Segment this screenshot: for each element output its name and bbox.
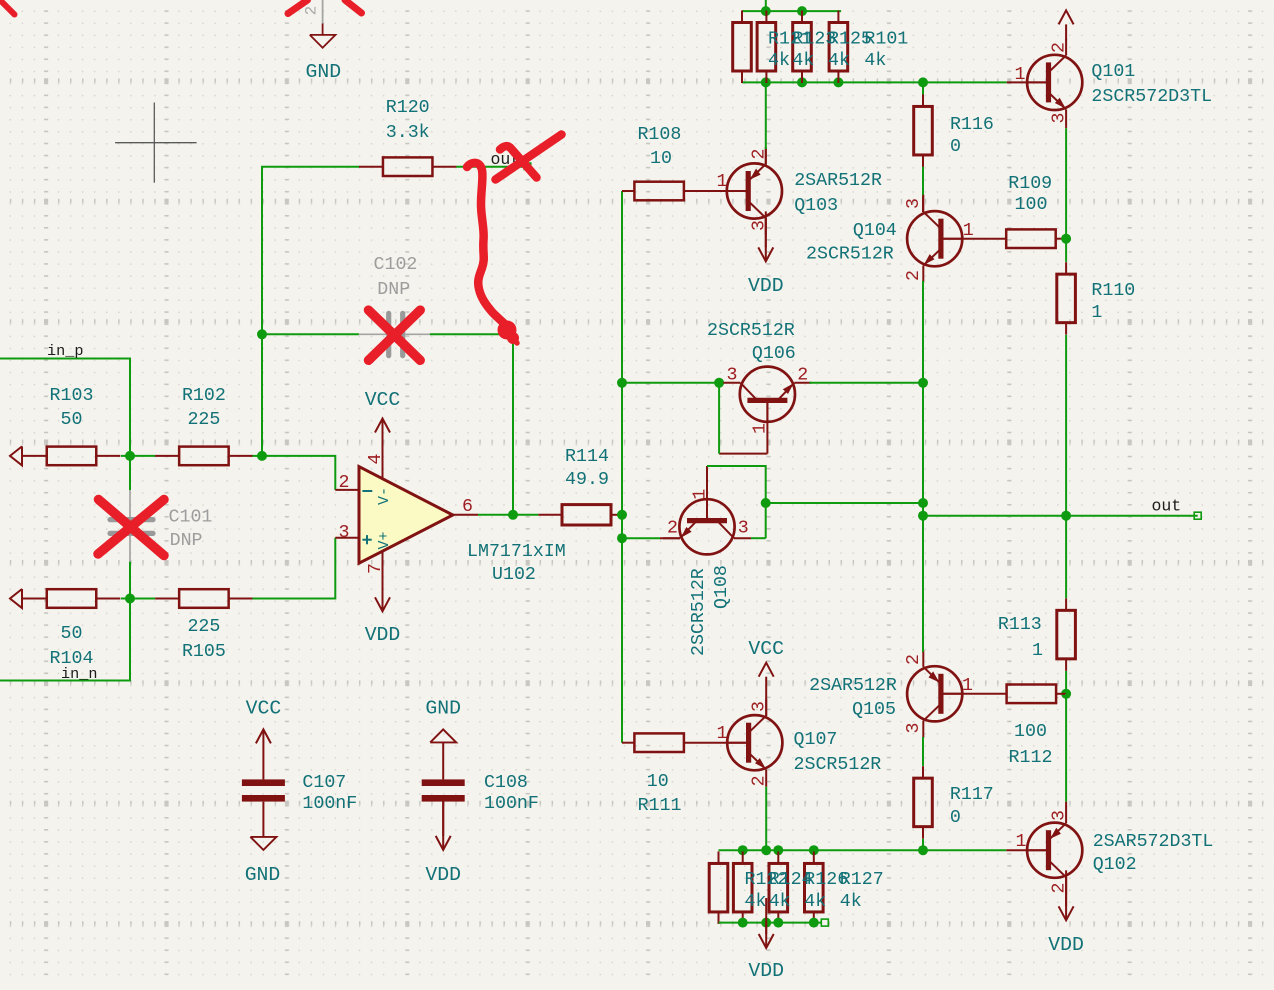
transistor Q107 2SCR512R NPN [727, 699, 782, 787]
svg-text:3: 3 [738, 519, 749, 539]
junction mid rail at out row [918, 511, 928, 521]
resistor R104 [47, 589, 97, 608]
svg-text:1: 1 [1015, 65, 1026, 85]
wire to op-amp pin 2 [262, 456, 335, 490]
resistor R109 [1006, 229, 1055, 248]
wire Q101 base [1007, 81, 1049, 83]
junction feedback at C102 row [257, 329, 267, 339]
svg-text:R108: R108 [637, 125, 681, 145]
svg-text:GND: GND [305, 61, 341, 83]
svg-text:U102: U102 [492, 565, 536, 585]
transistor Q103 2SAR512R PNP [727, 147, 782, 235]
svg-text:4k: 4k [769, 892, 791, 912]
svg-text:3: 3 [1050, 810, 1070, 821]
svg-text:100: 100 [1015, 195, 1048, 215]
wire out row to R113 [1065, 516, 1067, 599]
resistor R114 [562, 505, 611, 525]
resistor R122 [709, 863, 728, 912]
svg-text:Q103: Q103 [794, 196, 838, 216]
svg-text:C108: C108 [484, 773, 528, 793]
svg-text:2SCR512R: 2SCR512R [707, 321, 795, 341]
resistor R120 [383, 157, 433, 176]
red annotation partial X top [288, 0, 308, 14]
wire R116 to Q104 collector [922, 167, 924, 197]
junction railR at out row [1061, 511, 1071, 521]
wire R110 to out node [1065, 335, 1067, 516]
junction railL at Q108 row [617, 533, 627, 543]
resistor R103 [47, 447, 97, 466]
red annotation blob end of squiggle [498, 321, 517, 340]
svg-text:V-: V- [376, 487, 393, 505]
svg-text:VDD: VDD [748, 960, 784, 982]
junction bottom rail r4 [833, 77, 843, 87]
svg-text:R120: R120 [386, 98, 430, 118]
wire Q105 base to R112 [941, 693, 1007, 695]
wire C107 bottom [262, 802, 264, 837]
wire Q107 emitter to bottom rail [765, 787, 767, 851]
junction upper rail r3b [773, 845, 783, 855]
wire C102 row left [262, 333, 359, 335]
junction lower rail VDD tap [761, 918, 771, 928]
port arrow in_n [10, 589, 22, 608]
transistor Q102 2SAR572D3TL PNP [1027, 806, 1082, 894]
svg-text:4k: 4k [804, 892, 826, 912]
junction upper rail r4b [809, 845, 819, 855]
op-amp minus input marker [362, 490, 372, 492]
wire output to node [478, 514, 513, 516]
resistor R113 [1057, 610, 1076, 659]
svg-text:2: 2 [303, 6, 321, 16]
VDD power arrow below bank [765, 923, 767, 934]
svg-text:1: 1 [1032, 641, 1043, 661]
wire out row to railR [923, 515, 1066, 517]
wire bottom bank lower rail [719, 922, 822, 924]
VCC power arrow above op-amp [375, 419, 390, 433]
svg-text:R110: R110 [1091, 281, 1135, 301]
wire R102 to feedback node [252, 455, 262, 457]
svg-text:R114: R114 [565, 447, 609, 467]
ground symbol GND top [310, 35, 336, 48]
svg-text:100nF: 100nF [302, 794, 357, 814]
svg-text:R102: R102 [182, 386, 226, 406]
wire Q108 base loop [706, 466, 708, 521]
svg-text:50: 50 [61, 410, 83, 430]
svg-text:100: 100 [1014, 722, 1047, 742]
svg-text:1: 1 [1016, 832, 1027, 852]
junction lower rail r2b [738, 918, 748, 928]
transistor Q108 2SCR512R NPN rotated base up [663, 499, 751, 554]
op-amp plus input marker [362, 539, 371, 541]
junction railL at Q106 row [617, 378, 627, 388]
svg-text:10: 10 [647, 772, 669, 792]
wire bottom bank upper rail [719, 849, 1007, 851]
svg-text:R112: R112 [1009, 748, 1053, 768]
junction Q106 base loop [714, 378, 724, 388]
svg-text:225: 225 [187, 410, 220, 430]
svg-text:R127: R127 [840, 870, 884, 890]
svg-text:VDD: VDD [1048, 934, 1084, 956]
svg-text:VDD: VDD [425, 864, 461, 886]
svg-text:VCC: VCC [365, 389, 401, 411]
port arrow in_p [10, 446, 22, 465]
svg-text:10: 10 [650, 149, 672, 169]
svg-text:Q108: Q108 [712, 565, 732, 609]
wire R116 top [922, 82, 924, 94]
svg-text:VDD: VDD [748, 275, 784, 297]
svg-text:Q101: Q101 [1091, 62, 1135, 82]
resistor R123 [757, 23, 776, 72]
wire in_n net [0, 599, 130, 681]
junction railR at R112 [1061, 689, 1071, 699]
svg-text:2SCR512R: 2SCR512R [806, 245, 894, 265]
wire R104 to node B [121, 598, 130, 600]
junction bottom rail r2 [761, 77, 771, 87]
VCC power arrow above C107 [262, 729, 264, 779]
svg-text:1: 1 [1091, 303, 1102, 323]
svg-text:0: 0 [950, 137, 961, 157]
wire Q103 emitter to bank [765, 82, 767, 149]
svg-text:C101: C101 [169, 508, 213, 528]
svg-text:VCC: VCC [246, 698, 282, 720]
svg-text:2SAR512R: 2SAR512R [809, 676, 897, 696]
op-amp pin4 VCC line [382, 419, 384, 479]
wire R120 to dangling out label [456, 166, 524, 168]
wire R105 to op-amp pin 3 [252, 538, 335, 599]
junction bottom rail at R117 [918, 845, 928, 855]
svg-text:4k: 4k [768, 51, 790, 71]
svg-text:2SCR572D3TL: 2SCR572D3TL [1091, 87, 1212, 107]
svg-text:4k: 4k [828, 51, 850, 71]
resistor R110 [1057, 274, 1076, 323]
wire out row to label [1066, 515, 1198, 517]
wire node B to R105 [130, 598, 155, 600]
svg-text:out: out [1152, 497, 1182, 516]
wire Q106 base loop [766, 400, 768, 453]
resistor R116 [914, 106, 933, 155]
wire top bank lower rail [742, 81, 1007, 83]
wire in_p net [0, 359, 130, 456]
svg-text:3: 3 [904, 723, 924, 734]
svg-text:100nF: 100nF [484, 794, 539, 814]
svg-text:C102: C102 [374, 255, 418, 275]
transistor Q104 2SCR512R NPN [907, 195, 962, 283]
svg-text:R109: R109 [1008, 174, 1052, 194]
svg-text:4k: 4k [792, 51, 814, 71]
resistor R112 [1007, 685, 1057, 704]
wire R117 to bottom rail [922, 839, 924, 850]
svg-text:Q105: Q105 [852, 700, 896, 720]
svg-text:Q107: Q107 [794, 730, 838, 750]
svg-text:R103: R103 [50, 386, 94, 406]
wire railL to R108 [622, 190, 634, 192]
svg-text:Q106: Q106 [752, 344, 796, 364]
capacitor C108 [422, 779, 465, 786]
svg-text:2: 2 [339, 473, 350, 493]
output node junction [508, 510, 518, 520]
junction top rail r3 [797, 6, 807, 16]
wire mid rail vertical [922, 281, 924, 652]
red annotation stroke top-left corner [0, 0, 15, 15]
svg-text:2: 2 [1050, 42, 1070, 53]
junction mid rail at Q106 [918, 378, 928, 388]
resistor R117 [914, 778, 933, 827]
svg-text:R105: R105 [182, 642, 226, 662]
resistor R105 [179, 589, 229, 608]
svg-text:2SCR512R: 2SCR512R [794, 755, 882, 775]
svg-text:2: 2 [667, 519, 678, 539]
wire left driver rail vertical [621, 191, 623, 743]
svg-text:50: 50 [61, 624, 83, 644]
junction bottom rail r3 [797, 77, 807, 87]
wire feedback vertical [262, 167, 359, 456]
wire R103 to node A [121, 455, 130, 457]
crosshair cursor marker [153, 103, 155, 183]
svg-text:2SAR512R: 2SAR512R [794, 171, 882, 191]
op-amp output pin 6 stub [453, 514, 478, 516]
svg-text:DNP: DNP [170, 531, 203, 551]
ground symbol above C108 [430, 729, 456, 742]
svg-text:R117: R117 [950, 785, 994, 805]
wire bottom rail to Q102 base [1006, 849, 1048, 851]
svg-text:2: 2 [904, 654, 924, 665]
svg-text:DNP: DNP [377, 280, 410, 300]
capacitor C102 DNP greyed [359, 333, 386, 335]
svg-text:LM7171xIM: LM7171xIM [467, 542, 566, 562]
wire Q104 base to R109 [941, 238, 1006, 240]
VDD power arrow below Q102 [1065, 877, 1067, 906]
VCC power arrow above Q101 [1065, 24, 1067, 40]
junction Q108 loop at out branch [761, 498, 771, 508]
red X annotation over C101 [98, 500, 164, 555]
svg-text:1: 1 [717, 172, 728, 192]
junction bottom rail R116 tap [918, 77, 928, 87]
wire R109 to railR [1056, 238, 1066, 240]
wire Q107 collector [765, 701, 767, 716]
svg-text:3: 3 [339, 523, 350, 543]
wire end square at out [1194, 512, 1201, 519]
VDD power arrow below C108 [442, 802, 444, 836]
svg-text:3.3k: 3.3k [386, 123, 430, 143]
svg-text:2SCR512R: 2SCR512R [689, 568, 709, 656]
svg-text:3: 3 [904, 198, 924, 209]
wire output node to R114 [513, 514, 538, 516]
svg-text:3: 3 [727, 366, 738, 386]
wire end square at out label [524, 163, 531, 170]
wire end square bottom rail [821, 919, 828, 926]
svg-text:GND: GND [425, 698, 461, 720]
junction railR at R109 [1061, 234, 1071, 244]
svg-text:225: 225 [187, 617, 220, 637]
resistor R126 [769, 863, 788, 912]
VDD power arrow below op-amp [375, 597, 390, 611]
wire railL to Q106 collector [622, 382, 722, 384]
wire C102 to op-amp output node [430, 334, 513, 515]
VCC power arrow above Q107 [765, 677, 767, 701]
resistor R121 [733, 23, 752, 72]
wire out branch [766, 502, 923, 504]
op-amp pin7 VDD line [382, 552, 384, 612]
svg-text:C107: C107 [302, 773, 346, 793]
svg-text:VCC: VCC [748, 638, 784, 660]
svg-text:R111: R111 [638, 796, 682, 816]
wire railL to Q108 emitter [622, 537, 660, 539]
capacitor C101 DNP greyed [129, 490, 131, 517]
svg-text:0: 0 [950, 808, 961, 828]
resistor R127 [805, 863, 824, 912]
svg-text:4k: 4k [864, 51, 886, 71]
svg-text:VDD: VDD [365, 624, 401, 646]
greyed pin of crossed-out part top [322, 0, 324, 24]
wire Q105 collector to R117 [922, 737, 924, 766]
svg-text:3: 3 [1050, 113, 1070, 124]
svg-text:in_p: in_p [47, 342, 83, 360]
node B junction [125, 594, 135, 604]
junction mid rail at out branch [918, 498, 928, 508]
wire Q101 emitter to railR [1065, 126, 1067, 128]
red annotation squiggle from out to C102 node [467, 163, 510, 329]
wire top bank upper rail [742, 10, 841, 12]
junction railL at R114 [617, 510, 627, 520]
svg-text:R113: R113 [998, 615, 1042, 635]
ground symbol below C107 [250, 837, 276, 850]
svg-text:V+: V+ [376, 531, 393, 549]
node A junction [125, 451, 135, 461]
junction lower rail r4b [809, 918, 819, 928]
wire R113 to R112 node [1065, 671, 1067, 694]
wire node A to R102 [130, 455, 155, 457]
wire railL to R111 [622, 742, 634, 744]
svg-text:49.9: 49.9 [565, 470, 609, 490]
wire R108 to Q103 base [684, 190, 748, 192]
resistor R108 [634, 182, 684, 201]
junction lower rail r3b [773, 918, 783, 928]
resistor R124 [733, 863, 752, 912]
resistor R101 [829, 23, 848, 72]
svg-text:2: 2 [750, 775, 770, 786]
capacitor C107 [242, 779, 285, 786]
wire Q106 emitter to mid rail [809, 382, 923, 384]
wire Q105 emitter top [922, 516, 924, 652]
red X annotation over C102 [369, 310, 421, 360]
feedback node junction [257, 451, 267, 461]
svg-text:Q104: Q104 [853, 221, 897, 241]
junction top rail r2 [761, 6, 771, 16]
svg-text:2: 2 [797, 366, 808, 386]
transistor Q105 2SAR512R PNP mirrored [907, 650, 962, 738]
svg-text:4k: 4k [840, 892, 862, 912]
transistor Q106 2SCR512R NPN rotated [723, 367, 811, 422]
ground symbol GND top pin [322, 24, 324, 36]
svg-text:GND: GND [245, 864, 281, 886]
junction upper rail Q107 tap [761, 845, 771, 855]
svg-text:R116: R116 [950, 115, 994, 135]
red annotation X over out label [496, 135, 562, 180]
svg-text:2SAR572D3TL: 2SAR572D3TL [1093, 832, 1214, 852]
wire R111 to Q107 base [684, 742, 749, 744]
svg-text:R101: R101 [864, 30, 908, 50]
wire railR to Q102 collector [1065, 694, 1067, 802]
junction upper rail r2b [738, 845, 748, 855]
svg-text:R104: R104 [50, 649, 94, 669]
resistor R111 [634, 733, 684, 752]
resistor R102 [179, 447, 229, 466]
transistor Q101 2SCR572D3TL NPN [1027, 38, 1082, 126]
wire Q108 collector to loop [751, 537, 766, 539]
svg-text:4k: 4k [745, 892, 767, 912]
svg-text:Q102: Q102 [1093, 855, 1137, 875]
svg-text:2: 2 [904, 270, 924, 281]
svg-text:1: 1 [717, 724, 728, 744]
VDD power arrow below Q103 [765, 218, 767, 247]
resistor R125 [793, 23, 812, 72]
op-amp U102 triangle [359, 467, 453, 564]
